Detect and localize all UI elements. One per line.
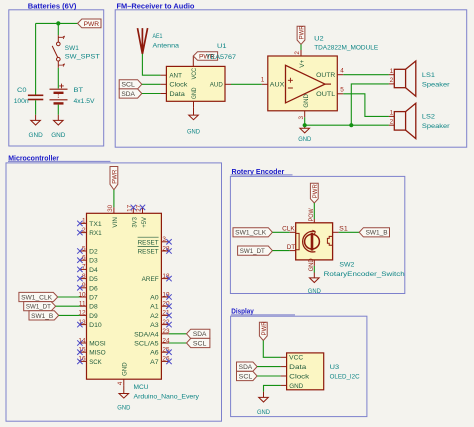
sheet Microcontroller box <box>6 163 222 421</box>
OLED display U3 body <box>287 353 324 390</box>
speaker LS2 <box>394 103 416 138</box>
no-connect D10 <box>77 322 82 327</box>
svg-text:SCL/A5: SCL/A5 <box>134 341 159 348</box>
svg-text:GND: GND <box>303 94 310 108</box>
pin MCU D7 (10) <box>78 291 86 298</box>
wire C0 branch down <box>35 23 37 95</box>
pin U1 ANT <box>160 74 166 76</box>
pin SW2 CLK <box>290 231 296 233</box>
svg-text:SW1_CLK: SW1_CLK <box>235 230 267 237</box>
svg-text:5: 5 <box>340 87 344 94</box>
svg-text:OLED_I2C: OLED_I2C <box>330 373 360 380</box>
pin MCU SCL/A5 (24) <box>161 337 170 344</box>
pin MCU A0 (19) <box>161 291 170 298</box>
wire antenna to U1 ANT <box>142 54 160 75</box>
wire SW1_DT to DT <box>272 250 289 252</box>
junction LS1 return <box>349 123 353 127</box>
pin U2 OUTR (4) <box>337 74 343 76</box>
power flag PWR (batteries) <box>78 19 101 28</box>
pin U2 V+ (2) <box>300 50 302 56</box>
power flag PWR (U2 V+) <box>297 26 305 44</box>
svg-text:Arduino_Nano_Every: Arduino_Nano_Every <box>134 394 200 401</box>
power flag PWR (SW2) <box>310 183 318 203</box>
global label SDA (display) <box>237 362 258 371</box>
wire D24 to SCL label <box>169 342 187 344</box>
svg-text:+5V: +5V <box>141 217 148 228</box>
svg-text:A2: A2 <box>150 313 159 320</box>
pin U3 GND <box>281 384 287 386</box>
svg-text:LS1: LS1 <box>422 72 435 79</box>
pin U2 GND (3) <box>304 111 306 118</box>
wire SW1_B to D9 <box>59 314 80 316</box>
svg-text:100n: 100n <box>14 98 29 105</box>
sheet FM-Receiver box <box>115 10 467 147</box>
global label SCL (display) <box>237 371 258 380</box>
ground (SW2) <box>310 278 320 283</box>
svg-text:4: 4 <box>340 68 344 75</box>
wire SW1_CLK to CLK <box>272 231 289 233</box>
svg-text:PWR: PWR <box>299 25 306 39</box>
pin U3 Data <box>281 366 287 368</box>
power flag PWR (MCU VIN) <box>110 167 118 190</box>
junction node PWR net <box>56 21 60 25</box>
svg-text:AUD: AUD <box>210 82 223 89</box>
wire PWR to VIN <box>113 190 115 208</box>
pin MCU A1 (20) <box>161 301 170 308</box>
svg-text:Clock: Clock <box>169 82 188 89</box>
svg-text:Data: Data <box>169 91 185 98</box>
pin MCU D8 (11) <box>79 301 87 308</box>
svg-text:GND: GND <box>308 288 321 295</box>
svg-text:23: 23 <box>162 328 170 335</box>
svg-text:LS2: LS2 <box>422 114 435 121</box>
wire U3 GND to ground <box>264 385 281 391</box>
no-connect +5V <box>140 205 145 210</box>
battery BT <box>50 84 68 104</box>
svg-text:U2: U2 <box>314 35 324 42</box>
pin MCU D3 (6) <box>80 255 87 262</box>
svg-text:SW1_DT: SW1_DT <box>240 248 265 255</box>
no-connect SCK <box>77 359 82 364</box>
svg-text:D8: D8 <box>89 304 98 311</box>
wire D23 to SDA label <box>169 333 187 335</box>
svg-text:TDA2822M_MODULE: TDA2822M_MODULE <box>314 44 378 51</box>
no-connect A7 <box>166 359 171 364</box>
global label SW1_B (MCU) <box>29 311 59 320</box>
svg-text:GND: GND <box>121 362 128 376</box>
global label SW1_B (rotary) <box>359 228 389 237</box>
wire OUTR to LS1 pin1 <box>343 74 389 76</box>
pin MCU D2 (5) <box>80 245 87 252</box>
MCU Arduino Nano Every body <box>87 213 162 379</box>
pin MCU +5V (27) <box>142 207 144 213</box>
svg-text:FM–Receiver to Audio: FM–Receiver to Audio <box>117 4 195 11</box>
pin U1 Clock <box>160 83 166 85</box>
svg-text:4: 4 <box>117 381 124 385</box>
svg-text:Speaker: Speaker <box>422 123 450 130</box>
no-connect D5 <box>77 276 82 281</box>
svg-text:TEA5767: TEA5767 <box>206 54 236 61</box>
svg-text:3: 3 <box>162 236 166 243</box>
svg-text:D3: D3 <box>89 258 98 265</box>
svg-text:V+: V+ <box>299 60 306 68</box>
global label SCL (MCU) <box>187 338 210 347</box>
ground (U1) <box>189 115 199 120</box>
pin LS2 2 <box>389 124 394 126</box>
wire U1 AUD to U2 AUX <box>231 83 262 85</box>
svg-text:D9: D9 <box>89 313 98 320</box>
pin MCU RESET (28) <box>161 245 170 252</box>
svg-text:AUX: AUX <box>270 82 285 89</box>
svg-text:SCL: SCL <box>239 373 253 380</box>
title underline Microcontroller <box>8 160 110 162</box>
ground (U2) <box>300 128 310 133</box>
pin SW2 GND <box>313 260 315 266</box>
svg-text:Batteries (6V): Batteries (6V) <box>28 4 77 11</box>
wire OUTL to LS2 pin1 <box>343 94 389 117</box>
svg-text:D5: D5 <box>89 276 98 283</box>
pin SW2 S1 <box>333 231 339 233</box>
pin MCU A3 (22) <box>161 319 170 326</box>
title underline Rotery Encoder <box>231 174 293 176</box>
pin MCU SCK (16) <box>78 356 86 363</box>
wire LS1 pin2 to ground net <box>351 84 389 125</box>
svg-text:OUTR: OUTR <box>316 72 335 79</box>
ground (C0) <box>31 120 41 125</box>
no-connect D2 <box>77 248 82 253</box>
no-connect D4 <box>77 267 82 272</box>
no-connect RX1 <box>77 230 82 235</box>
pin SW2 POW <box>313 219 315 223</box>
svg-text:A1: A1 <box>150 304 159 311</box>
ground (MCU) <box>119 394 129 399</box>
svg-text:GND: GND <box>187 128 200 135</box>
pin MCU D9 (12) <box>78 310 86 317</box>
svg-text:RESET: RESET <box>138 239 159 246</box>
amp triangle <box>286 65 332 103</box>
svg-text:SW_SPST: SW_SPST <box>65 54 100 61</box>
svg-text:A3: A3 <box>150 322 159 329</box>
wire U2 GND to junction <box>304 117 306 125</box>
svg-text:3: 3 <box>298 116 305 120</box>
pin U3 Clock <box>281 375 287 377</box>
pin U3 VCC <box>281 356 287 358</box>
svg-text:GND: GND <box>298 136 311 143</box>
svg-text:SCL: SCL <box>121 82 135 89</box>
sheet Rotary Encoder box <box>230 176 404 293</box>
ground (U3) <box>259 397 269 402</box>
svg-text:11: 11 <box>79 301 86 308</box>
no-connect 3V3 <box>131 205 136 210</box>
svg-text:RESET: RESET <box>138 249 159 256</box>
svg-text:SW2: SW2 <box>339 261 354 268</box>
op IC U1 TEA5767 body <box>166 66 225 101</box>
amplifier U2 body <box>268 56 338 111</box>
rotary encoder SW2 body <box>296 223 333 260</box>
svg-text:A0: A0 <box>150 295 159 302</box>
no-connect A0 <box>166 294 171 299</box>
svg-text:GND: GND <box>257 409 270 416</box>
svg-text:2: 2 <box>390 77 394 84</box>
svg-text:1: 1 <box>261 76 265 83</box>
svg-text:MOSI: MOSI <box>89 341 106 348</box>
svg-text:TX1: TX1 <box>89 221 102 228</box>
wire SW1_CLK to D7 <box>58 296 80 298</box>
global label SCL (FM) <box>119 80 142 89</box>
svg-text:OUTL: OUTL <box>316 91 335 98</box>
svg-text:PWR: PWR <box>312 184 319 198</box>
switch SW1 SW_SPST <box>52 35 64 68</box>
svg-text:SCK: SCK <box>89 359 102 366</box>
wire SDA to U3 Data <box>257 366 281 368</box>
rotary knob <box>303 230 320 252</box>
svg-text:2: 2 <box>390 119 394 126</box>
pin MCU MISO (15) <box>78 347 86 354</box>
pin MCU SDA/A4 (23) <box>161 328 170 335</box>
global label SW1_CLK (rotary) <box>233 228 272 237</box>
svg-text:A7: A7 <box>150 359 159 366</box>
svg-text:GND: GND <box>51 132 65 139</box>
svg-text:ANT: ANT <box>169 73 182 80</box>
svg-text:D4: D4 <box>89 267 98 274</box>
svg-text:POW: POW <box>308 208 315 222</box>
svg-text:4x1.5V: 4x1.5V <box>74 98 95 105</box>
wire PWR to U3 VCC <box>263 341 280 358</box>
svg-text:D2: D2 <box>89 249 98 256</box>
no-connect MOSI <box>77 340 82 345</box>
title underline Display <box>231 314 295 316</box>
no-connect A2 <box>166 313 171 318</box>
svg-text:RX1: RX1 <box>89 230 102 237</box>
svg-text:PWR: PWR <box>261 321 268 335</box>
sheet Batteries box <box>9 10 104 146</box>
svg-text:Clock: Clock <box>289 373 310 380</box>
sheet Display box <box>231 316 367 416</box>
no-connect A6 <box>166 350 171 355</box>
svg-text:24: 24 <box>162 337 170 344</box>
global label SW1_DT (MCU) <box>24 302 56 311</box>
wire SDA to U1 Data <box>142 93 161 95</box>
pin SW2 DT <box>290 250 296 252</box>
svg-text:A6: A6 <box>150 350 159 357</box>
global label SW1_DT (rotary) <box>238 246 273 255</box>
svg-text:SW1_DT: SW1_DT <box>26 304 51 311</box>
svg-text:2: 2 <box>294 51 301 55</box>
no-connect AREF <box>166 276 171 281</box>
wire SCL to U3 Clock <box>257 375 281 377</box>
svg-text:Speaker: Speaker <box>422 81 450 88</box>
svg-text:1: 1 <box>390 68 394 75</box>
svg-text:D10: D10 <box>89 322 102 329</box>
wire SW1 to BT <box>57 68 59 89</box>
wire S1 to SW1_B <box>339 231 360 233</box>
pin MCU A2 (21) <box>161 310 170 317</box>
svg-text:D6: D6 <box>89 285 98 292</box>
wire SW1_DT to D8 <box>56 305 80 307</box>
svg-text:3V3: 3V3 <box>132 217 139 228</box>
svg-text:SCL: SCL <box>193 340 207 347</box>
svg-text:MISO: MISO <box>89 350 106 357</box>
svg-text:MCU: MCU <box>134 384 149 391</box>
svg-text:VIN: VIN <box>112 217 119 228</box>
svg-text:SW1: SW1 <box>65 45 79 52</box>
no-connect TX1 <box>77 221 82 226</box>
no-connect MISO <box>77 350 82 355</box>
svg-text:SDA: SDA <box>239 364 253 371</box>
pin MCU RESET (3) <box>161 236 169 243</box>
svg-text:S1: S1 <box>339 226 348 233</box>
svg-text:D7: D7 <box>89 295 98 302</box>
svg-text:SDA/A4: SDA/A4 <box>134 331 159 338</box>
pin MCU A6 (25) <box>161 347 170 354</box>
pin LS1 2 <box>389 83 394 85</box>
pin MCU TX1 (1) <box>80 218 87 225</box>
svg-text:C0: C0 <box>17 87 27 94</box>
svg-text:BT: BT <box>74 87 84 94</box>
svg-text:Data: Data <box>289 364 306 371</box>
no-connect D3 <box>77 258 82 263</box>
no-connect RESET <box>166 248 171 253</box>
svg-text:SW1_CLK: SW1_CLK <box>21 294 53 301</box>
svg-text:VCC: VCC <box>289 355 303 362</box>
svg-text:SDA: SDA <box>193 331 207 338</box>
svg-text:AE1: AE1 <box>153 33 163 40</box>
svg-text:VCC: VCC <box>191 68 198 80</box>
svg-text:30: 30 <box>107 204 114 212</box>
svg-text:PWR: PWR <box>112 169 119 183</box>
power flag PWR (U1 VCC) <box>193 52 217 67</box>
pin LS2 1 <box>389 115 394 117</box>
wire MCU GND <box>123 386 125 394</box>
svg-text:GND: GND <box>191 87 198 99</box>
pin MCU RX1 (2) <box>80 227 87 234</box>
svg-text:RotaryEncoder_Switch: RotaryEncoder_Switch <box>324 271 405 278</box>
wire PWR to U2 V+ <box>300 44 302 50</box>
speaker LS1 <box>394 61 416 96</box>
svg-text:AREF: AREF <box>142 276 159 283</box>
antenna AE1 <box>138 28 148 54</box>
svg-text:GND: GND <box>289 383 303 390</box>
wire SCL to U1 Clock <box>142 83 161 85</box>
pin MCU D4 (7) <box>80 264 87 271</box>
no-connect A3 <box>166 322 171 327</box>
pin MCU A7 (26) <box>161 356 170 363</box>
svg-text:SW1_B: SW1_B <box>31 313 53 320</box>
pin U2 AUX (1) <box>262 83 268 85</box>
svg-text:PWR: PWR <box>84 21 100 28</box>
svg-text:SW1_B: SW1_B <box>366 230 388 237</box>
no-connect D6 <box>77 285 82 290</box>
svg-text:U3: U3 <box>330 364 340 371</box>
pin U1 GND bottom <box>193 101 195 108</box>
pin MCU AREF (18) <box>161 273 170 280</box>
svg-text:CLK: CLK <box>282 226 295 233</box>
pin MCU 3V3 (17) <box>132 207 134 213</box>
pin MCU MOSI (14) <box>78 337 86 344</box>
pin MCU VIN (30) <box>113 207 115 213</box>
rotary left notch <box>296 233 299 249</box>
wire BT to GND <box>57 105 59 115</box>
ground (BT) <box>54 120 64 125</box>
junction U2 GND <box>303 123 307 127</box>
wire U1 GND <box>193 108 195 115</box>
global label SDA (MCU) <box>187 329 210 338</box>
wire ground bus to LS2 pin2 <box>305 124 389 126</box>
svg-text:1: 1 <box>390 110 394 117</box>
wire C0 to GND <box>35 100 37 115</box>
global label SW1_CLK (MCU) <box>19 292 58 301</box>
capacitor C0 <box>28 95 43 99</box>
svg-text:Antenna: Antenna <box>153 43 180 50</box>
pin LS1 1 <box>389 74 394 76</box>
svg-text:U1: U1 <box>217 43 227 50</box>
wire junction to SW1 <box>57 23 59 35</box>
wire top node to PWR <box>36 22 78 24</box>
pin U2 OUTL (5) <box>337 93 343 95</box>
pin MCU GND (4) <box>123 379 125 386</box>
no-connect RESET <box>166 239 171 244</box>
no-connect A1 <box>166 304 171 309</box>
pin MCU D5 (8) <box>80 273 87 280</box>
svg-text:GND: GND <box>29 132 43 139</box>
wire SW2 GND down <box>313 266 315 273</box>
global label SDA (FM) <box>119 89 142 98</box>
pin MCU D10 (13) <box>78 319 86 326</box>
pin U1 Data <box>160 93 166 95</box>
svg-text:DT: DT <box>287 244 296 251</box>
pin U1 AUD <box>225 83 231 85</box>
pin MCU D6 (9) <box>80 282 87 289</box>
wire PWR to SW2 POW <box>313 203 315 219</box>
svg-text:GND: GND <box>117 404 130 411</box>
power flag PWR (U3) <box>259 322 267 340</box>
svg-text:SDA: SDA <box>121 91 135 98</box>
rotary right notch <box>327 236 332 245</box>
